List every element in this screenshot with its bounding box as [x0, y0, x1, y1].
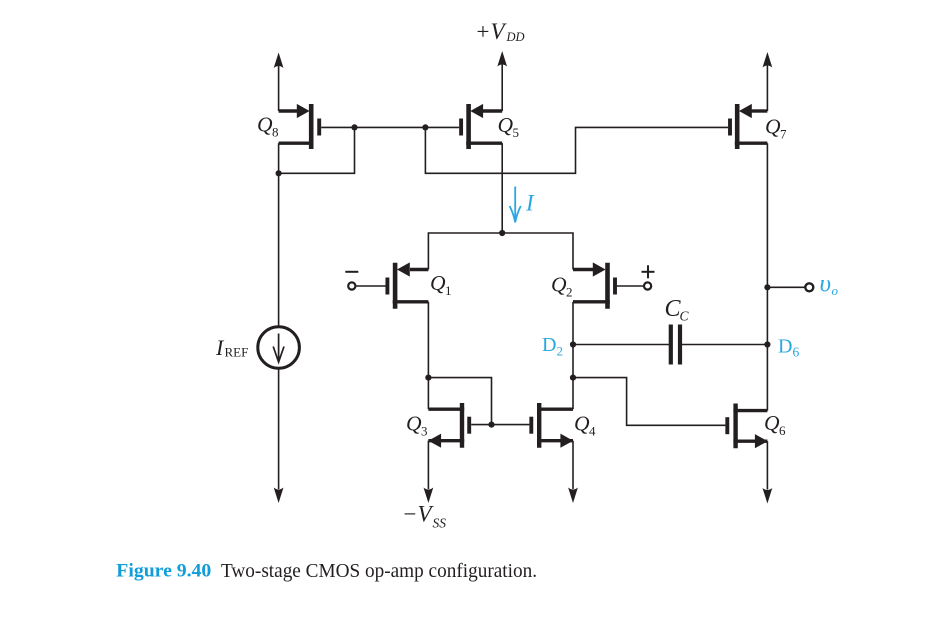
current source IREF: [258, 327, 300, 369]
svg-text:8: 8: [272, 125, 279, 140]
wire: tail rail to Q1 and Q2 sources: [428, 233, 573, 270]
wire: Q4 source to -VSS arrow: [568, 441, 578, 503]
svg-text:Figure 9.40: Figure 9.40: [116, 561, 211, 582]
wire: Q1 drain down to Q3: [427, 302, 429, 409]
svg-text:6: 6: [793, 345, 800, 360]
label Q6: [764, 411, 786, 438]
current arrow I (cyan): [510, 187, 521, 223]
svg-text:REF: REF: [225, 345, 249, 360]
wire: gate bus branch to Q7 gate: [425, 127, 728, 173]
label D6 (cyan): [778, 336, 800, 360]
svg-text:7: 7: [780, 127, 787, 142]
terminal: non-inverting input circle: [644, 282, 651, 289]
transistor Q8 (PMOS, gate on right): [279, 104, 320, 149]
transistor Q2 (PMOS, gate on right): [573, 262, 644, 308]
wire: +VDD rail lead above Q5: [497, 51, 507, 111]
label +VDD: [475, 19, 525, 44]
svg-text:6: 6: [779, 423, 786, 438]
wire: Q2 drain down to Q4: [572, 302, 574, 409]
label: plus sign at non-inverting input: [642, 265, 655, 278]
label -VSS: [402, 502, 446, 531]
transistor Q5 (PMOS, gate on left): [461, 104, 502, 149]
svg-text:2: 2: [566, 284, 573, 299]
node: junction on Q3-Q4 gate line: [488, 422, 494, 428]
node: output junction at vo: [764, 284, 770, 290]
svg-text:Q: Q: [764, 411, 780, 435]
label Q4: [574, 411, 596, 438]
wire: output stub to vo terminal: [767, 286, 805, 288]
node: tail current node I: [499, 230, 505, 236]
svg-text:SS: SS: [433, 516, 447, 531]
svg-text:Q: Q: [406, 411, 422, 435]
label Q3: [406, 411, 428, 438]
transistor Q7 (PMOS, gate on left): [730, 104, 767, 149]
wire: D2 to capacitor left plate: [573, 344, 669, 346]
wire: VDD rail lead above Q8: [274, 53, 284, 112]
svg-text:Two-stage CMOS op-amp configur: Two-stage CMOS op-amp configuration.: [221, 560, 537, 582]
svg-text:4: 4: [589, 423, 596, 438]
svg-text:D: D: [542, 334, 556, 356]
wire: Q3 diode connection to gate line: [428, 378, 491, 425]
svg-text:D: D: [778, 336, 792, 358]
svg-text:υ: υ: [820, 271, 831, 298]
wire: Q8 drain to gate bus (diode connection): [279, 127, 355, 173]
svg-text:Q: Q: [551, 272, 567, 296]
label CC: [665, 296, 690, 324]
wire: Q7 drain down to Q6 drain (output column): [766, 143, 768, 410]
label IREF: [215, 335, 248, 360]
node: Q8 drain junction: [276, 170, 282, 176]
label Q2: [551, 272, 573, 299]
svg-text:Q: Q: [765, 115, 781, 139]
wire: Q6 source to -VSS arrow: [763, 441, 773, 503]
terminal: output circle vo: [805, 283, 813, 291]
label D2 (cyan): [542, 334, 563, 359]
wire: Q8 drain down to IREF: [278, 173, 280, 326]
svg-text:Q: Q: [430, 271, 446, 295]
wire: gate bus Q8-Q5: [321, 126, 459, 128]
terminal: inverting input circle: [348, 282, 355, 289]
svg-text:5: 5: [513, 125, 520, 140]
svg-text:I: I: [525, 191, 535, 216]
node D2: junction at compensation tap: [570, 341, 576, 347]
svg-text:−V: −V: [402, 502, 435, 527]
wire: VDD rail lead above Q7: [763, 52, 773, 111]
svg-text:3: 3: [421, 423, 428, 438]
wire: Q5 drain down to node I: [501, 143, 503, 233]
transistor Q3 (NMOS, gate on right): [428, 403, 469, 448]
svg-text:DD: DD: [506, 30, 525, 44]
svg-text:Q: Q: [257, 113, 273, 137]
node D6: junction at capacitor right side: [764, 341, 770, 347]
transistor Q6 (NMOS, gate on left): [727, 404, 767, 449]
transistor Q4 (NMOS, gate on left): [531, 403, 573, 448]
capacitor CC: [671, 325, 680, 365]
svg-text:Q: Q: [498, 113, 514, 137]
node: Q4 drain junction to Q6 gate branch: [570, 375, 576, 381]
label Q7: [765, 115, 787, 142]
svg-text:I: I: [215, 335, 225, 360]
transistor Q1 (PMOS, gate on left): [356, 262, 429, 308]
label Q1: [430, 271, 452, 298]
wire: IREF to -VSS arrow: [274, 368, 284, 503]
wire: Q3-Q4 gate line: [471, 424, 529, 426]
label Q5: [498, 113, 520, 140]
svg-text:C: C: [680, 309, 690, 324]
node: Q1 drain / Q3 drain junction: [425, 375, 431, 381]
svg-text:Q: Q: [574, 411, 590, 435]
wire: branch from Q4 drain to Q6 gate: [573, 378, 725, 426]
label Q8: [257, 113, 279, 140]
svg-text:+V: +V: [475, 19, 508, 44]
svg-text:2: 2: [557, 344, 564, 359]
label vo (cyan): [820, 271, 839, 299]
svg-text:o: o: [832, 283, 839, 298]
wire: capacitor right plate to node D6: [682, 344, 768, 346]
svg-text:1: 1: [445, 283, 452, 298]
node: junction on gate bus at Q7 branch: [422, 124, 428, 130]
wire: Q3 source to -VSS arrow: [424, 441, 434, 503]
node: junction on gate bus above Q8 drain riser: [351, 124, 357, 130]
label: minus sign at inverting input: [345, 271, 358, 273]
